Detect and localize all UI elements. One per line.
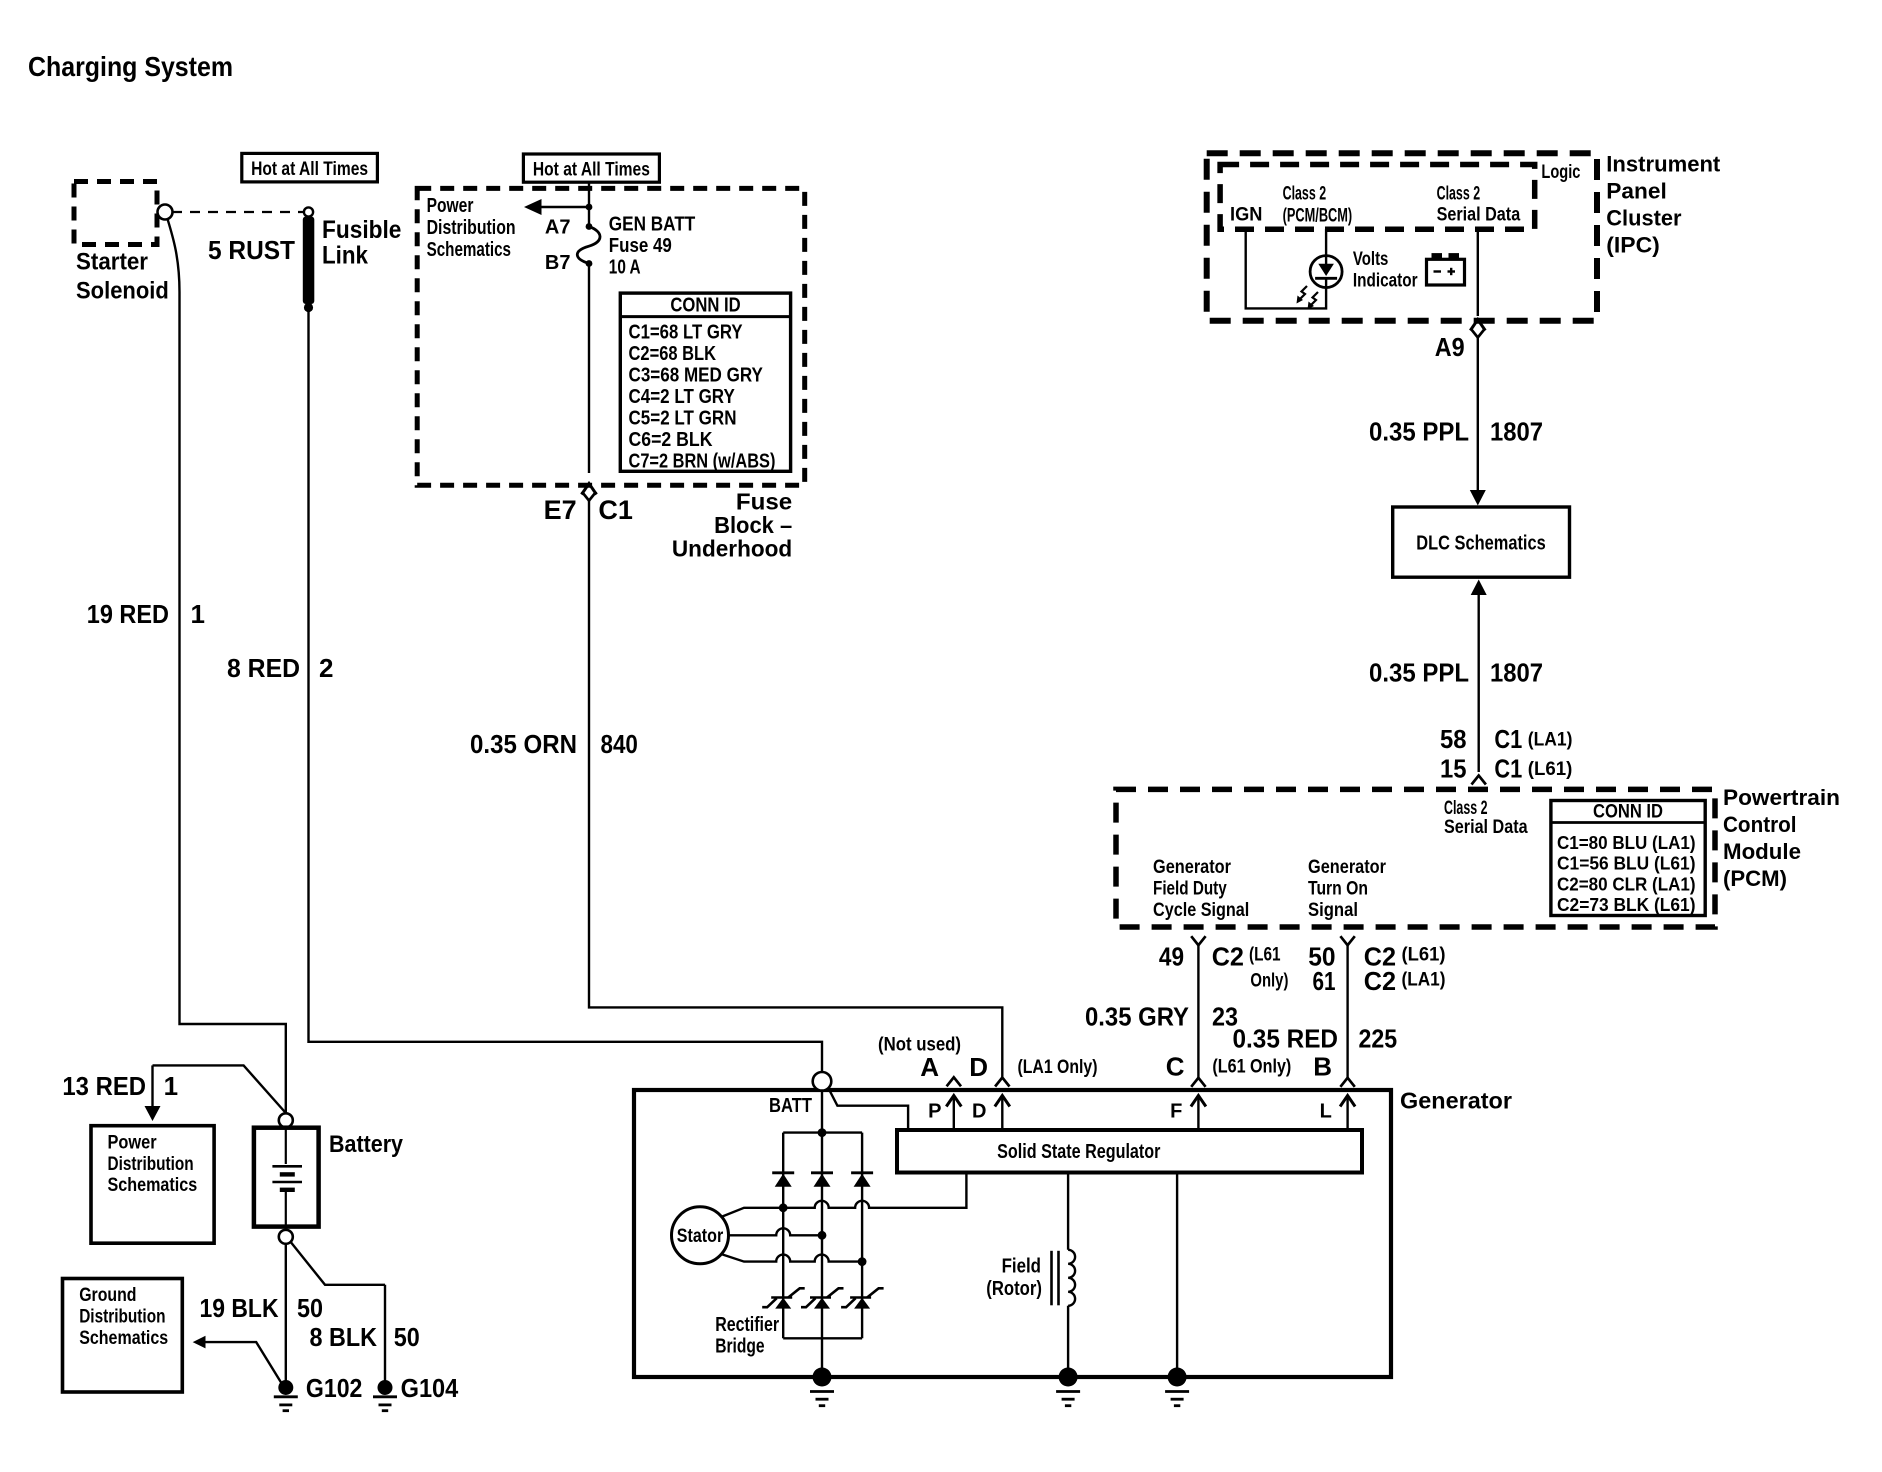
dashed wire starter solenoid to fusible link [172, 211, 303, 213]
wire 0.35 PPL 1807 upper [1470, 338, 1486, 506]
label Class 2 PCM/BCM [1283, 184, 1353, 227]
svg-text:(LA1 Only): (LA1 Only) [1018, 1057, 1098, 1078]
label Generator Field Duty Cycle Signal [1153, 857, 1249, 921]
generator internal ground 3 [1168, 1368, 1187, 1387]
svg-text:225: 225 [1359, 1024, 1398, 1054]
svg-text:Serial Data: Serial Data [1444, 817, 1528, 838]
svg-text:Generator: Generator [1153, 857, 1232, 878]
svg-text:Schematics: Schematics [79, 1328, 168, 1349]
terminal P arrow [946, 1096, 961, 1131]
wire 13 RED to power distribution [145, 1065, 286, 1121]
wire 19 BLK battery to G102 [285, 1244, 287, 1381]
starter solenoid terminal [158, 205, 173, 220]
svg-text:1807: 1807 [1490, 658, 1543, 688]
svg-text:B7: B7 [545, 252, 571, 274]
wire label 8 RED circuit 2 [227, 653, 333, 683]
field rotor label [986, 1256, 1042, 1301]
svg-text:Signal: Signal [1308, 900, 1358, 921]
svg-text:8 RED: 8 RED [227, 653, 300, 683]
volts indicator label [1353, 249, 1418, 292]
svg-text:Volts: Volts [1353, 249, 1389, 270]
svg-text:Fuse: Fuse [736, 489, 792, 515]
IPC logic inner dashed box [1220, 165, 1535, 230]
stator winding [672, 1207, 729, 1264]
svg-text:Control: Control [1723, 812, 1797, 837]
Hot at All Times tag 1 [242, 153, 378, 182]
wire 8 RED fusible link to generator BATT [309, 310, 823, 1072]
rectifier bridge left rail [782, 1133, 784, 1339]
connector chevron terminal D [995, 1078, 1009, 1087]
generator internal ground 2 [1059, 1368, 1078, 1387]
terminal L arrow [1340, 1096, 1355, 1131]
svg-text:L: L [1320, 1101, 1332, 1123]
svg-text:C2: C2 [1212, 942, 1244, 972]
svg-text:Field: Field [1002, 1256, 1041, 1278]
svg-text:F: F [1170, 1101, 1182, 1123]
svg-text:Underhood: Underhood [672, 536, 792, 562]
field rotor coil [1052, 1173, 1076, 1378]
svg-text:(L61): (L61) [1528, 759, 1573, 780]
svg-text:D: D [972, 1101, 986, 1123]
svg-text:BATT: BATT [769, 1095, 812, 1117]
svg-text:(PCM): (PCM) [1723, 866, 1787, 891]
powertrain control module label [1723, 785, 1840, 891]
wire 19 RED starter solenoid to battery [168, 219, 286, 1114]
svg-text:IGN: IGN [1230, 205, 1262, 226]
fuse 49 pin B7 [545, 252, 592, 274]
svg-text:50: 50 [394, 1322, 420, 1352]
svg-text:50: 50 [297, 1293, 323, 1323]
instrument panel cluster label [1606, 151, 1721, 257]
rectifier bridge top rail [783, 1128, 862, 1137]
label pins 58 C1 LA1 [1440, 724, 1572, 754]
svg-text:Powertrain: Powertrain [1723, 785, 1840, 810]
battery negative terminal [279, 1230, 293, 1244]
connector chevron PCM pin 49 [1191, 936, 1205, 945]
svg-text:B: B [1313, 1052, 1332, 1082]
svg-text:G104: G104 [401, 1373, 459, 1403]
svg-text:C1: C1 [598, 495, 633, 525]
connector E7 C1 chevron [582, 492, 596, 501]
svg-text:0.35 GRY: 0.35 GRY [1085, 1002, 1189, 1032]
svg-text:(IPC): (IPC) [1606, 232, 1660, 257]
terminal F arrow [1191, 1096, 1206, 1131]
svg-text:1807: 1807 [1490, 417, 1543, 447]
fuse block underhood dashed box [417, 188, 805, 485]
wire fuse 49 to E7 [582, 264, 597, 495]
svg-text:A: A [920, 1052, 939, 1082]
fusible link element [303, 217, 315, 305]
svg-text:CONN ID: CONN ID [1593, 802, 1663, 823]
svg-text:G102: G102 [306, 1373, 363, 1403]
svg-text:Solid State Regulator: Solid State Regulator [997, 1141, 1160, 1163]
svg-text:DLC Schematics: DLC Schematics [1416, 533, 1546, 555]
svg-text:Charging System: Charging System [28, 51, 233, 82]
stator phase wire middle [729, 1228, 827, 1239]
svg-text:Distribution: Distribution [79, 1307, 165, 1328]
svg-text:Cluster: Cluster [1606, 205, 1682, 230]
svg-text:Block –: Block – [714, 512, 792, 538]
svg-text:19 RED: 19 RED [87, 599, 169, 629]
svg-text:Instrument: Instrument [1606, 151, 1721, 176]
generator internal ground 1 [813, 1368, 832, 1387]
rectifier diode D3 [851, 1173, 873, 1187]
wire label 0.35 PPL 1807 lower [1369, 658, 1543, 688]
svg-text:Indicator: Indicator [1353, 271, 1418, 292]
fusible link terminal [304, 207, 313, 216]
Hot at All Times tag 2 [523, 154, 659, 182]
svg-text:A9: A9 [1435, 332, 1465, 362]
svg-text:Starter: Starter [76, 249, 148, 276]
wire generator field duty cycle signal 0.35 GRY [1197, 945, 1199, 1078]
ground distribution schematics box [63, 1279, 183, 1393]
wire hot feed into fuse block [588, 182, 590, 226]
wire label 13 RED circuit 1 [62, 1071, 178, 1101]
rectifier diode D1 [772, 1173, 794, 1187]
solid state regulator box [897, 1130, 1362, 1173]
svg-text:Hot at All Times: Hot at All Times [251, 159, 368, 180]
wire label 0.35 PPL 1807 upper [1369, 417, 1543, 447]
label pins 49 C2 L61 Only [1159, 942, 1289, 992]
wire 0.35 PPL 1807 lower [1471, 580, 1487, 773]
ground G102 [278, 1380, 293, 1395]
svg-text:Logic: Logic [1541, 162, 1580, 183]
svg-text:C2: C2 [1364, 966, 1396, 996]
terminal D arrow [995, 1096, 1010, 1131]
wire label 0.35 GRY circuit 23 [1085, 1002, 1238, 1032]
svg-text:58: 58 [1440, 724, 1467, 754]
IPC battery icon [1427, 253, 1465, 285]
label Power Distribution Schematics in fuse block [427, 195, 516, 261]
wire label 19 RED circuit 1 [87, 599, 205, 629]
wire 8 BLK battery to G104 [291, 1242, 386, 1381]
svg-text:A7: A7 [545, 217, 571, 239]
svg-text:Schematics: Schematics [108, 1175, 198, 1196]
svg-text:8 BLK: 8 BLK [310, 1322, 378, 1352]
starter solenoid label [76, 249, 169, 305]
svg-text:(PCM/BCM): (PCM/BCM) [1283, 206, 1353, 227]
svg-text:Cycle Signal: Cycle Signal [1153, 900, 1249, 921]
svg-text:Module: Module [1723, 839, 1801, 864]
svg-text:Turn On: Turn On [1308, 879, 1368, 900]
svg-text:CONN ID: CONN ID [670, 295, 740, 317]
svg-text:49: 49 [1159, 942, 1184, 972]
svg-text:Class 2: Class 2 [1437, 184, 1481, 205]
wire label 8 BLK circuit 50 [310, 1322, 420, 1352]
svg-text:Ground: Ground [79, 1285, 136, 1306]
generator box [634, 1090, 1391, 1377]
wire label 0.35 ORN circuit 840 [470, 729, 638, 759]
svg-text:(L61: (L61 [1249, 945, 1281, 966]
fuse 49 element [577, 227, 600, 264]
fusible link label [322, 216, 401, 270]
svg-text:19 BLK: 19 BLK [200, 1293, 279, 1323]
svg-text:Schematics: Schematics [427, 239, 511, 261]
svg-text:Panel: Panel [1606, 178, 1667, 203]
rectifier zener diode D4 [762, 1288, 805, 1308]
svg-text:Power: Power [108, 1133, 158, 1154]
ground G104 [378, 1380, 393, 1395]
fuse 49 pin A7 [545, 217, 592, 239]
rectifier zener diode D5 [801, 1288, 844, 1308]
label pins 15 C1 L61 [1440, 754, 1572, 784]
svg-text:Fusible: Fusible [322, 216, 401, 244]
svg-text:C: C [1166, 1052, 1185, 1082]
fusible link bottom dot [304, 303, 313, 312]
label pins 50 61 C2 [1308, 942, 1445, 997]
svg-text:61: 61 [1313, 966, 1336, 996]
svg-text:C2=80 CLR (LA1): C2=80 CLR (LA1) [1557, 874, 1696, 894]
wire 0.35 ORN from E7 to generator D terminal [589, 501, 1002, 1078]
connector chevron into PCM [1472, 776, 1486, 785]
svg-text:Solenoid: Solenoid [76, 278, 169, 305]
svg-text:Generator: Generator [1400, 1088, 1512, 1114]
svg-text:0.35 PPL: 0.35 PPL [1369, 417, 1469, 447]
wire regulator to ground [1176, 1173, 1178, 1378]
svg-text:C7=2 BRN (w/ABS): C7=2 BRN (w/ABS) [629, 451, 776, 473]
svg-text:0.35 PPL: 0.35 PPL [1369, 658, 1469, 688]
svg-text:(LA1): (LA1) [1402, 970, 1446, 991]
stator phase wire top [721, 1175, 966, 1218]
svg-text:Battery: Battery [329, 1131, 404, 1158]
wire BATT through rectifier to ground [821, 1091, 823, 1377]
generator BATT terminal [813, 1072, 832, 1091]
svg-text:Bridge: Bridge [715, 1336, 764, 1358]
label Class 2 Serial Data PCM [1444, 798, 1528, 838]
svg-text:Link: Link [322, 242, 368, 270]
svg-text:840: 840 [601, 729, 638, 759]
svg-text:Only): Only) [1250, 971, 1288, 992]
svg-text:Class 2: Class 2 [1444, 798, 1488, 819]
svg-text:C1: C1 [1494, 724, 1522, 754]
powertrain control module dashed box [1116, 789, 1715, 927]
arrow to power distribution schematics [524, 199, 589, 215]
svg-text:1: 1 [164, 1071, 178, 1101]
svg-text:C4=2 LT GRY: C4=2 LT GRY [629, 386, 736, 408]
label GEN BATT Fuse 49 10 A [609, 214, 696, 279]
label terminal C L61 Only [1166, 1052, 1292, 1082]
svg-text:13 RED: 13 RED [62, 1071, 146, 1101]
svg-text:Rectifier: Rectifier [715, 1314, 779, 1336]
DLC schematics box [1393, 507, 1570, 577]
wire class 2 serial data to A9 [1470, 229, 1485, 330]
svg-text:Hot at All Times: Hot at All Times [533, 160, 650, 181]
stator phase wire bottom [721, 1254, 866, 1266]
svg-text:P: P [928, 1101, 941, 1123]
svg-text:Generator: Generator [1308, 857, 1387, 878]
conn id table PCM [1551, 801, 1705, 916]
svg-text:C1=80 BLU (LA1): C1=80 BLU (LA1) [1557, 833, 1696, 853]
svg-text:10 A: 10 A [609, 257, 641, 279]
svg-text:Class 2: Class 2 [1283, 184, 1327, 205]
wire PCM/BCM to volts indicator [1325, 229, 1327, 258]
rectifier zener diode D6 [841, 1288, 884, 1308]
svg-text:E7: E7 [544, 495, 577, 525]
wire IGN to volts indicator [1246, 229, 1326, 308]
battery B1 [254, 1128, 319, 1227]
starter solenoid box [74, 182, 157, 245]
svg-text:C5=2 LT GRN: C5=2 LT GRN [629, 408, 737, 430]
volts indicator emission arrows [1297, 286, 1319, 310]
rectifier bridge bottom rail [783, 1337, 862, 1339]
svg-text:Stator: Stator [677, 1226, 724, 1247]
battery positive terminal [279, 1113, 293, 1127]
svg-text:GEN BATT: GEN BATT [609, 214, 696, 236]
label Generator Turn On Signal [1308, 857, 1387, 921]
rectifier diode D2 [811, 1173, 833, 1187]
svg-text:(LA1): (LA1) [1528, 730, 1573, 751]
svg-text:D: D [969, 1052, 988, 1082]
wire G102 to ground distribution schematics [193, 1336, 282, 1384]
wire label 19 BLK circuit 50 [200, 1293, 324, 1323]
svg-text:C6=2 BLK: C6=2 BLK [629, 429, 713, 451]
wire label 0.35 RED circuit 225 [1233, 1024, 1398, 1054]
svg-text:C2=73 BLK (L61): C2=73 BLK (L61) [1557, 895, 1696, 915]
svg-text:C1: C1 [1494, 754, 1522, 784]
svg-text:C1=56 BLU (L61): C1=56 BLU (L61) [1557, 854, 1696, 874]
fuse block underhood label [672, 489, 792, 562]
svg-text:(L61): (L61) [1402, 945, 1446, 966]
wire generator turn on signal 0.35 RED [1346, 945, 1348, 1078]
conn id table fuse block [620, 293, 790, 472]
connector A9 chevron [1471, 329, 1485, 338]
junction dot at power distribution tap [586, 204, 593, 211]
connector chevron terminal A not used [947, 1077, 961, 1086]
volts indicator LED [1310, 256, 1342, 288]
svg-text:0.35 RED: 0.35 RED [1233, 1024, 1339, 1054]
svg-text:Distribution: Distribution [108, 1154, 194, 1175]
svg-text:Field Duty: Field Duty [1153, 879, 1227, 900]
label Class 2 Serial Data [1437, 184, 1521, 226]
connector chevron generator L terminal [1340, 1078, 1354, 1087]
svg-text:C1=68 LT GRY: C1=68 LT GRY [629, 322, 744, 344]
svg-text:C2=68 BLK: C2=68 BLK [629, 343, 717, 365]
label E7 C1 [544, 495, 633, 525]
svg-text:(Rotor): (Rotor) [986, 1278, 1042, 1300]
svg-text:15: 15 [1440, 754, 1467, 784]
svg-text:Distribution: Distribution [427, 217, 516, 239]
svg-text:0.35 ORN: 0.35 ORN [470, 729, 577, 759]
connector chevron PCM pin 50 61 [1340, 936, 1354, 945]
svg-text:(L61 Only): (L61 Only) [1212, 1057, 1291, 1078]
power distribution schematics box [91, 1126, 214, 1244]
svg-text:Fuse 49: Fuse 49 [609, 235, 672, 257]
instrument panel cluster dashed box [1207, 153, 1597, 320]
rectifier bridge label [715, 1314, 779, 1358]
rectifier bridge right rail [861, 1133, 863, 1339]
svg-text:2: 2 [319, 653, 333, 683]
svg-text:C3=68 MED GRY: C3=68 MED GRY [629, 365, 764, 387]
wire BATT to regulator [828, 1088, 908, 1128]
svg-text:1: 1 [191, 599, 205, 629]
svg-text:Serial Data: Serial Data [1437, 205, 1521, 226]
connector chevron generator F terminal [1191, 1078, 1205, 1087]
svg-text:5 RUST: 5 RUST [208, 235, 295, 265]
svg-text:Power: Power [427, 195, 474, 217]
